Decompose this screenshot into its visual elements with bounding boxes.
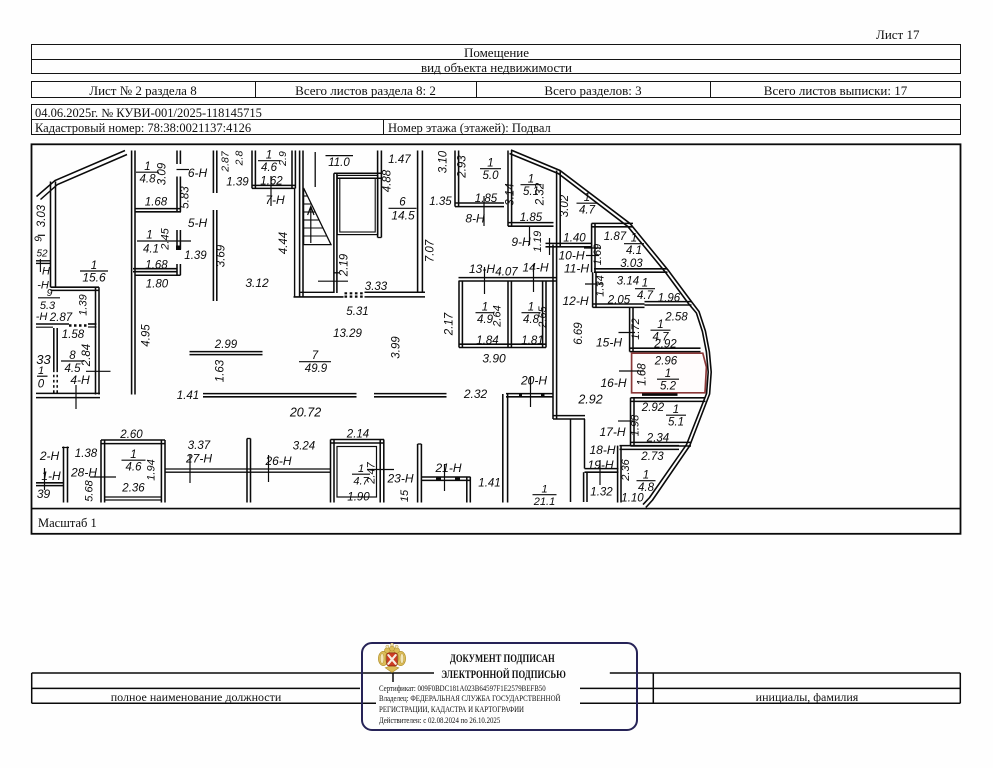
room 1.32 box [583, 472, 585, 502]
room 20-H top [506, 393, 554, 395]
wall x~335 vertical [333, 173, 335, 293]
wall: step down x~97 [95, 287, 97, 394]
wall: stub x~249 [246, 439, 248, 503]
wall pair down to 19-H [570, 419, 572, 502]
wall: long corridor 20.72 [203, 393, 357, 395]
divider y~210 [135, 208, 181, 210]
stairs [304, 188, 331, 245]
header table 2 [31, 81, 961, 98]
wall: horizontal under 1-H [36, 482, 64, 484]
room 20-H left wall [502, 394, 504, 503]
ticks small left edge [36, 260, 51, 262]
wall x~555 [552, 245, 554, 420]
wall: 26-H corridor y~470 [165, 468, 331, 470]
wall: bottom of room 15.6 [51, 286, 100, 288]
room 10-H bottom [546, 242, 593, 244]
wall: outer boundary right [511, 150, 711, 508]
divider y~270 room 4.1 bottom [133, 268, 177, 270]
tick 23-H [367, 469, 394, 471]
wall: stair hall bottom [294, 296, 344, 298]
wall x~133 tall [131, 151, 133, 395]
wall x~179 segments [176, 151, 178, 165]
room 9-H bottom [508, 222, 554, 224]
wall x~215 [212, 151, 214, 194]
room 2.14 box [330, 440, 332, 503]
plan frame [32, 144, 961, 534]
wall: dashed vertical x~55 [53, 328, 55, 370]
wall: stair hall left [299, 151, 301, 298]
room 21-H [421, 476, 470, 478]
wall H2 [585, 468, 619, 470]
emblem: double-headed eagle [378, 646, 405, 672]
wall corner y~173 [334, 172, 381, 174]
tick 27-H [189, 455, 191, 483]
room 8-H [454, 151, 456, 207]
wall x~420 central [417, 151, 419, 293]
room 7-H [251, 151, 253, 189]
footer table [32, 672, 434, 674]
red room 16-H [632, 353, 707, 393]
room 15-H left/bottom [629, 307, 631, 351]
wall 13/14-H top [459, 277, 558, 279]
rooms 4.9 / 4.8 [458, 281, 460, 348]
tick 2.45 [137, 240, 191, 242]
cap y~417 [553, 415, 585, 417]
tick 4-H [75, 385, 77, 409]
room 2.73 top [620, 445, 680, 447]
tick 6-H [177, 169, 190, 171]
wall: outer diagonal top-left [37, 151, 126, 197]
stairs area labels [326, 155, 354, 157]
sheet number [876, 27, 919, 43]
header table 1 [31, 44, 961, 75]
wall: vertical x~65 bottom-left [63, 447, 65, 503]
room 11-H box [591, 223, 593, 272]
wall: y=325 with dashed door [36, 323, 69, 325]
inner box room [337, 175, 378, 234]
tick 28-H [90, 476, 116, 478]
wall: 2.99 bar [190, 351, 263, 353]
wall between 8-H and 9-H [507, 151, 509, 227]
wall x~420 [417, 444, 419, 503]
wall: corridor bottom wall left part [36, 392, 100, 394]
tick 2.19 [318, 280, 348, 282]
tick 8/4.5 [61, 360, 84, 362]
room 12-H [592, 272, 594, 307]
tick 20-H [530, 377, 532, 407]
wall: left outer [50, 182, 52, 288]
wall x~379 [377, 151, 379, 238]
room 17-H [631, 397, 706, 399]
room 28-H box [100, 440, 102, 503]
header table 3 [31, 104, 961, 135]
tick 1-H [44, 468, 46, 490]
room 10-H left [556, 171, 558, 247]
signature stamp [361, 642, 638, 731]
tick 26-H [268, 455, 270, 482]
